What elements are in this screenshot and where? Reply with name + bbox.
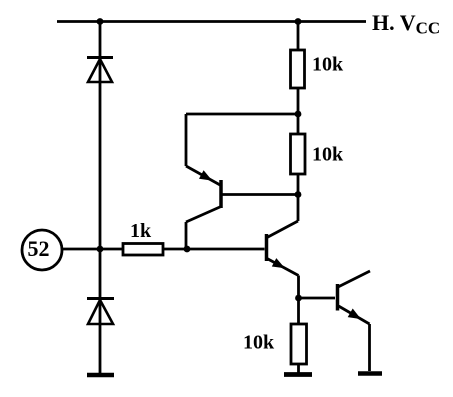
svg-text:10k: 10k (243, 332, 275, 354)
node: Q2 emitter / R4 / Q3 base (295, 295, 302, 302)
svg-text:52: 52 (28, 236, 50, 261)
wire: left vertical bus from rail to ground (99, 22, 102, 375)
transistor Q2 (NPN) (267, 221, 299, 276)
node: rail junction left (97, 18, 104, 25)
wire: Q3 emitter down to ground (368, 324, 371, 371)
resistor R3 10k (middle) (291, 134, 306, 195)
node: left bus / input wire junction (97, 246, 104, 253)
resistor R2 10k (top) (291, 22, 305, 135)
wire: Q1 emitter loop to mid-node (186, 114, 298, 166)
svg-text:10k: 10k (312, 144, 344, 166)
svg-text:H. VCC: H. VCC (372, 10, 440, 38)
wire: Q1 collector down to base wire (185, 222, 188, 249)
node: rail junction right (295, 18, 302, 25)
diode D2 (87, 299, 114, 325)
wire: R1 to Q2 base (163, 248, 265, 251)
svg-text:10k: 10k (312, 54, 344, 76)
ground (below R4) (284, 372, 312, 377)
resistor R4 10k (bottom) (291, 298, 307, 373)
wire: Q2 collector up to node (297, 195, 300, 222)
wire: Q2 emitter down to node (297, 276, 300, 299)
diode D1 (87, 58, 113, 83)
wire: terminal 52 to node (62, 248, 123, 251)
wire: H.Vcc power rail (57, 20, 366, 23)
node: base wire junction (184, 246, 191, 253)
node: Q1 base / Q2 collector / R3 bottom (295, 191, 302, 198)
node: between R2 and R3 (295, 111, 302, 118)
wire: node to Q3 base (299, 297, 336, 300)
ground (below D2) (87, 373, 114, 378)
transistor Q1 (PNP) (186, 166, 298, 222)
ground (below Q3 emitter) (358, 371, 382, 376)
transistor Q3 (NPN) (338, 271, 371, 324)
resistor R1 1k (123, 244, 163, 256)
terminal 52 (22, 230, 62, 270)
svg-text:1k: 1k (130, 220, 152, 242)
